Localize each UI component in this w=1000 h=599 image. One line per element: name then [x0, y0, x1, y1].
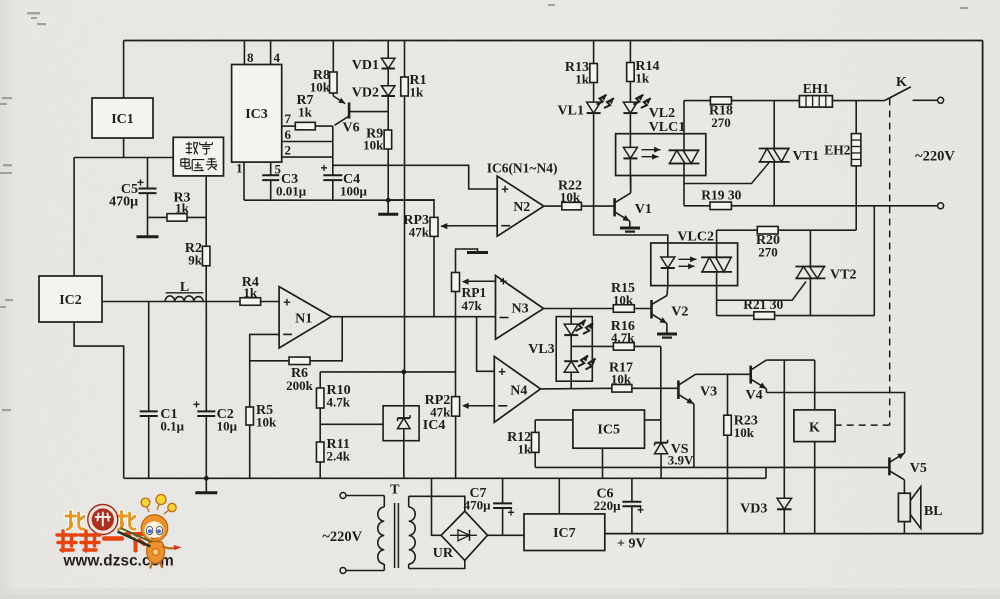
svg-text:VD1: VD1 — [352, 58, 379, 73]
wire relay bottom — [814, 442, 816, 534]
svg-text:+: + — [637, 503, 644, 517]
resistor R1 — [404, 41, 406, 78]
wire VLC1 triac bottom — [683, 164, 685, 206]
svg-text:K: K — [896, 75, 907, 90]
op-amp N1 — [279, 287, 331, 348]
svg-text:VD3: VD3 — [740, 502, 767, 517]
svg-text:10μ: 10μ — [217, 419, 238, 434]
bridge rectifier UR — [441, 511, 487, 560]
resistor R17 — [612, 385, 632, 393]
switch K — [885, 87, 911, 100]
wire IC5 bottom — [602, 448, 604, 478]
wire EH2 bottom — [855, 166, 857, 230]
capacitor C2 — [205, 302, 207, 412]
wire RP1 top to ground — [456, 249, 478, 273]
transformer secondary — [408, 496, 410, 507]
svg-text:VLC2: VLC2 — [677, 230, 714, 245]
wire right border (+9V feed) — [982, 41, 984, 534]
wire V4 collector — [766, 359, 814, 361]
transistor V5 — [888, 457, 891, 475]
dashed link switch to relay — [889, 99, 891, 426]
wire V3 collector to V4 base — [696, 373, 751, 375]
svg-text:+: + — [283, 295, 291, 310]
svg-text:+: + — [500, 274, 508, 289]
wire N2 noninverting input — [333, 165, 497, 189]
svg-text:3.9V: 3.9V — [668, 453, 694, 468]
wire 220V to VT2 branch — [873, 206, 875, 316]
ground V1 — [620, 227, 640, 230]
svg-text:9k: 9k — [188, 253, 203, 268]
capacitor C6 — [631, 478, 633, 501]
svg-text:1k: 1k — [410, 85, 425, 100]
LED inside VLC2 — [661, 257, 675, 268]
svg-text:+: + — [320, 161, 327, 175]
wire bridge right — [488, 534, 525, 536]
pin 4 — [270, 41, 272, 65]
digital voltmeter box — [173, 137, 223, 176]
svg-text:~220V: ~220V — [322, 529, 362, 545]
wire IC2 bottom route — [74, 322, 124, 478]
resistor R23 — [727, 374, 729, 415]
resistor R8 — [332, 41, 334, 73]
svg-text:10k: 10k — [611, 372, 632, 387]
svg-text:2: 2 — [285, 143, 292, 158]
wire VL3 mid to R16 — [571, 345, 592, 347]
svg-text:V6: V6 — [343, 121, 360, 136]
svg-text:VL3: VL3 — [528, 342, 554, 357]
wire reference node — [320, 371, 455, 373]
wire main signal — [102, 301, 279, 303]
wire N4 output — [541, 387, 612, 390]
svg-text:V5: V5 — [910, 461, 927, 476]
svg-text:UR: UR — [433, 546, 454, 561]
svg-text:470μ: 470μ — [109, 195, 138, 210]
wire N1 inverting input — [250, 334, 279, 407]
wire voltmeter bottom — [205, 176, 207, 246]
diode VD2 — [381, 86, 395, 96]
wire R10 R11 — [319, 408, 321, 443]
triac VT2 — [809, 230, 811, 266]
svg-text:10k: 10k — [310, 80, 331, 95]
LED VL1 — [593, 83, 595, 103]
resistor R22 — [544, 205, 561, 207]
svg-text:47k: 47k — [462, 298, 483, 313]
op-amp N2 — [497, 176, 544, 236]
IC2 — [39, 276, 102, 322]
IC3 — [232, 65, 282, 163]
resistor R6 feedback — [250, 317, 343, 361]
svg-text:+: + — [137, 176, 144, 190]
IC4 box — [383, 406, 419, 441]
svg-text:R21 30: R21 30 — [743, 297, 783, 312]
wire VL3 top — [570, 309, 572, 325]
terminal 220V input bottom — [340, 568, 346, 574]
resistor R14 — [629, 41, 631, 63]
wire rail link — [765, 467, 767, 478]
svg-text:1k: 1k — [575, 72, 590, 87]
wire V4 emitter to V5 — [766, 393, 904, 453]
heater EH1 — [799, 96, 832, 108]
IC5 — [573, 410, 645, 448]
op-amp N4 — [494, 356, 540, 422]
svg-text:10k: 10k — [256, 415, 277, 430]
pin 6 — [282, 141, 333, 143]
node dot reference — [401, 370, 406, 375]
LED inside VLC1 — [623, 147, 637, 158]
zener inside IC4 — [403, 372, 405, 418]
wire IC5 left / resistor R12 — [535, 419, 573, 421]
svg-text:1k: 1k — [635, 71, 650, 86]
resistor R19 — [684, 205, 710, 207]
svg-text:VL2: VL2 — [649, 106, 675, 121]
ground RP1 — [467, 251, 488, 254]
wire N2 inverting from RP3 wiper — [452, 225, 497, 227]
svg-text:BL: BL — [924, 504, 943, 519]
svg-text:IC6(N1~N4): IC6(N1~N4) — [487, 161, 558, 176]
resistor R5 — [246, 407, 254, 425]
svg-text:220μ: 220μ — [594, 498, 622, 513]
capacitor C1 — [148, 302, 150, 412]
watermark logo — [57, 495, 182, 570]
svg-text:R19 30: R19 30 — [701, 187, 741, 202]
wire speaker bottom — [903, 522, 905, 534]
wire VLC1 triac top — [683, 101, 685, 134]
svg-text:10k: 10k — [613, 293, 634, 308]
node dot ground IC3 — [386, 198, 391, 203]
svg-text:10k: 10k — [734, 425, 755, 440]
potentiometer RP2 — [452, 397, 460, 417]
svg-text:6: 6 — [285, 127, 292, 142]
potentiometer RP3 — [430, 217, 438, 236]
capacitor C5 — [147, 158, 149, 189]
svg-text:+ 9V: + 9V — [617, 537, 646, 552]
svg-text:VD2: VD2 — [352, 86, 379, 101]
resistor R13 — [593, 41, 595, 64]
svg-text:10k: 10k — [363, 138, 384, 153]
light arrows VLC1 — [642, 149, 661, 151]
resistor R18 — [684, 100, 710, 102]
svg-text:270: 270 — [758, 245, 778, 260]
svg-text:200k: 200k — [286, 378, 314, 393]
transistor V2 — [666, 286, 669, 296]
svg-text:270: 270 — [711, 115, 731, 130]
LED VL2 — [629, 82, 631, 103]
watermark mascot — [141, 495, 176, 542]
svg-text:8: 8 — [247, 50, 254, 65]
svg-text:+: + — [193, 398, 200, 412]
svg-text:47k: 47k — [409, 225, 430, 240]
capacitor C4 — [332, 126, 334, 173]
wire VL3 bottom — [570, 372, 572, 388]
svg-text:IC5: IC5 — [597, 423, 620, 438]
svg-text:~220V: ~220V — [915, 149, 955, 165]
svg-text:T: T — [390, 483, 400, 498]
svg-text:VLC1: VLC1 — [649, 120, 686, 135]
wire IC1 bottom — [123, 138, 125, 158]
svg-text:VT1: VT1 — [793, 149, 819, 164]
svg-text:EH2: EH2 — [824, 143, 851, 158]
gate VT2 — [717, 282, 806, 301]
scan artifacts — [0, 4, 968, 411]
resistor R10 — [319, 372, 321, 389]
svg-text:K: K — [809, 421, 820, 436]
svg-text:+: + — [508, 506, 515, 520]
wire IC7 top — [558, 478, 560, 514]
resistor R21 — [717, 315, 754, 317]
wire node A horizontal — [74, 157, 173, 159]
wire R16 corner down — [660, 346, 662, 442]
wire secondary top to bridge — [409, 496, 465, 511]
wire secondary bottom to bridge — [409, 560, 465, 568]
resistor R9 — [384, 130, 392, 149]
wire +9V top rail — [124, 40, 983, 42]
svg-text:N3: N3 — [512, 301, 529, 316]
svg-text:IC2: IC2 — [59, 293, 82, 308]
svg-text:10k: 10k — [560, 190, 581, 205]
wire C5 to ground — [147, 217, 149, 236]
svg-text:0.1μ: 0.1μ — [160, 419, 184, 434]
terminal 220V input top — [340, 493, 346, 499]
IC1 — [92, 98, 153, 138]
svg-text:N4: N4 — [510, 383, 527, 398]
text dianyabiao — [181, 158, 191, 169]
svg-text:VL1: VL1 — [558, 104, 584, 119]
svg-text:+: + — [498, 364, 506, 379]
svg-text:4.7k: 4.7k — [611, 330, 635, 345]
wire VL1 to VLC2 LED — [594, 114, 668, 258]
svg-text:1k: 1k — [298, 105, 313, 120]
diode VD1 — [381, 58, 395, 68]
wire R1 to IC4 node — [404, 96, 406, 372]
wire VLC1 LED to V1 — [629, 176, 631, 193]
svg-text:1: 1 — [236, 161, 243, 176]
ground C5 — [137, 235, 159, 238]
svg-text:+: + — [501, 182, 509, 197]
wire to IC4 left — [320, 423, 383, 425]
pin 5 / capacitor C3 — [270, 162, 272, 173]
svg-text:V2: V2 — [671, 305, 688, 320]
svg-text:IC4: IC4 — [423, 418, 446, 433]
resistor R2 — [205, 246, 207, 302]
wire IC3 bottom — [244, 199, 435, 201]
wire RP1 wiper to N3 — [464, 280, 496, 282]
svg-text:0.01μ: 0.01μ — [276, 184, 307, 199]
wire IC2 top vertical — [73, 158, 75, 277]
wire IC5 right — [645, 419, 661, 421]
optocoupler VLC2 box — [651, 243, 738, 286]
svg-text:4: 4 — [274, 50, 281, 65]
node dot ground rail — [204, 476, 209, 481]
wire relay top — [814, 360, 816, 410]
wire bridge left to ground rail — [432, 478, 442, 535]
wire VLC2 triac top — [716, 230, 718, 257]
svg-text:IC1: IC1 — [111, 112, 134, 127]
svg-text:4.7k: 4.7k — [327, 395, 351, 410]
svg-text:100μ: 100μ — [340, 184, 368, 199]
pin 1 — [243, 162, 245, 200]
transistor V6 — [332, 93, 334, 96]
wire signal rail W1 — [535, 466, 889, 468]
wire N3 output — [544, 308, 614, 310]
wire ground rail — [124, 477, 766, 479]
LED VL3 upper — [564, 324, 578, 335]
LED VL3 lower — [564, 361, 578, 372]
wire RP3 top — [388, 200, 434, 218]
ground main — [205, 478, 207, 493]
svg-text:IC7: IC7 — [553, 526, 576, 541]
wire +9V bottom — [605, 533, 983, 535]
svg-text:1k: 1k — [517, 442, 532, 457]
resistor R15 — [613, 305, 634, 313]
LED pair VL3 box — [556, 317, 592, 382]
svg-text:V1: V1 — [635, 202, 652, 217]
transistor V3 — [677, 381, 680, 400]
gate VT1 — [684, 163, 769, 184]
scan shadow bottom — [0, 588, 1000, 599]
resistor R20 — [717, 229, 758, 231]
svg-text:7: 7 — [285, 111, 292, 126]
svg-text:470μ: 470μ — [464, 498, 492, 513]
triac inside VLC1 — [669, 149, 700, 151]
optocoupler VLC1 box — [616, 134, 706, 176]
resistor R16 — [592, 345, 613, 347]
light arrows VLC2 — [679, 258, 697, 260]
wire RP1 RP2 vertical — [455, 292, 457, 397]
resistor R4 — [240, 298, 261, 306]
wire IC1 top — [123, 41, 125, 99]
wire EH1 to switch — [832, 100, 885, 102]
svg-text:V3: V3 — [700, 385, 717, 400]
transformer core — [394, 503, 396, 568]
wire VLC2 triac bottom — [716, 272, 718, 316]
relay K box — [794, 410, 835, 442]
wire RP2 wiper to N4 — [464, 405, 494, 407]
svg-text:1k: 1k — [243, 285, 258, 300]
resistor R11 — [316, 442, 324, 462]
zener VS — [655, 443, 668, 454]
transistor V1 — [613, 198, 616, 216]
wire VD chain top — [387, 41, 389, 59]
svg-text:IC3: IC3 — [245, 107, 268, 122]
svg-text:V4: V4 — [746, 388, 763, 403]
op-amp N3 — [496, 276, 544, 340]
svg-text:1k: 1k — [175, 200, 190, 215]
ground V2 — [657, 333, 677, 336]
triac inside VLC2 — [701, 256, 732, 258]
potentiometer RP1 — [452, 273, 460, 292]
svg-text:VT2: VT2 — [830, 268, 856, 283]
heater EH2 — [855, 101, 857, 134]
svg-text:N1: N1 — [295, 311, 312, 326]
svg-text:N2: N2 — [513, 200, 530, 215]
IC7 — [524, 514, 605, 551]
wire N1 output — [331, 316, 495, 318]
svg-text:47k: 47k — [430, 405, 451, 420]
diode VD3 — [783, 360, 785, 498]
svg-text:EH1: EH1 — [803, 81, 830, 96]
svg-text:2.4k: 2.4k — [327, 449, 351, 464]
text shuzi — [186, 142, 198, 155]
ground IC3 area — [387, 200, 389, 214]
pin 8 — [243, 41, 245, 65]
transistor V4 — [749, 366, 752, 384]
wire N4 plus from N1 out — [477, 317, 495, 372]
pin 2 — [282, 156, 333, 158]
resistor R3 — [148, 216, 207, 218]
wire VL2 into VLC1 — [629, 114, 631, 148]
speaker BL — [898, 493, 910, 521]
capacitor C7 — [502, 478, 504, 503]
pin 7 / resistor R7 — [282, 125, 295, 127]
triac VT1 — [773, 101, 775, 149]
